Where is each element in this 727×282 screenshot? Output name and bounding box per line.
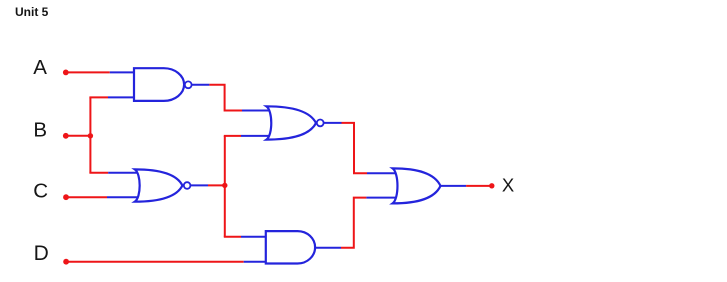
svg-text:D: D — [34, 242, 49, 265]
svg-text:X: X — [502, 174, 514, 195]
NOR gate G2 output bubble — [184, 182, 191, 189]
AND gate G4 body — [266, 231, 315, 263]
wire blue stub into OR G5 pin 2 — [366, 197, 399, 199]
node terminal dot C — [63, 194, 69, 200]
wire node N1 vertical — [224, 136, 226, 237]
wire output X red segment — [466, 185, 490, 187]
NOR gate G3 body — [266, 106, 316, 139]
wire node N1 upper branch red — [224, 135, 241, 137]
NAND gate G1 body — [134, 68, 184, 101]
node junction dot N1 — [222, 183, 227, 188]
svg-text:A: A — [33, 56, 47, 79]
NOR gate G3 output bubble — [317, 120, 324, 127]
wire net B vertical — [89, 97, 91, 172]
wire blue stub into AND G4 pin 1 — [241, 236, 267, 238]
wire input B red segment — [66, 135, 91, 137]
wire blue stub into NOR G3 pin 2 — [241, 135, 273, 137]
node terminal dot A — [63, 70, 69, 76]
wire input C red segment — [66, 196, 107, 198]
wire NAND G1 output blue stub — [192, 84, 210, 86]
node terminal dot D — [63, 259, 69, 265]
wire net B upper branch blue stub to NAND G1 pin 2 — [108, 96, 136, 98]
svg-text:Unit 5: Unit 5 — [15, 5, 49, 19]
wire net B upper branch red — [89, 96, 108, 98]
node terminal dot B — [63, 133, 69, 139]
wire node N1 lower branch red — [224, 236, 241, 238]
wire NOR G2 output red segment to node N1 — [208, 184, 225, 186]
wire AND G4 output red elbow to OR G5 pin 2 — [341, 198, 366, 248]
wire input A blue stub to NAND G1 pin 1 — [110, 71, 136, 73]
node junction dot net B — [88, 133, 93, 138]
OR gate G5 body — [393, 168, 441, 203]
wire NAND G1 output red elbow to NOR G3 pin 1 — [209, 85, 242, 111]
NOR gate G2 body — [135, 169, 183, 201]
wire NOR G2 output blue stub — [191, 184, 209, 186]
svg-text:C: C — [33, 180, 48, 203]
wire net B lower branch blue stub to NOR G2 pin 1 — [108, 172, 143, 174]
wire AND G4 output blue stub — [315, 247, 341, 249]
wire input A red segment — [66, 71, 110, 73]
wire blue stub into NOR G3 pin 1 — [242, 110, 273, 112]
node terminal dot X — [489, 183, 494, 188]
wire NOR G3 output blue stub — [324, 122, 342, 124]
wire blue stub into OR G5 pin 1 — [367, 172, 399, 174]
wire NOR G3 output red elbow to OR G5 pin 1 — [342, 123, 368, 173]
wire input D red segment — [66, 261, 244, 263]
wire net B lower branch red — [89, 172, 108, 174]
wire input D blue stub to AND G4 pin 2 — [244, 261, 267, 263]
NAND gate G1 output bubble — [185, 81, 192, 88]
svg-text:B: B — [33, 119, 47, 142]
wire input C blue stub to NOR G2 pin 2 — [107, 196, 143, 198]
wire OR G5 output blue stub — [441, 185, 467, 187]
